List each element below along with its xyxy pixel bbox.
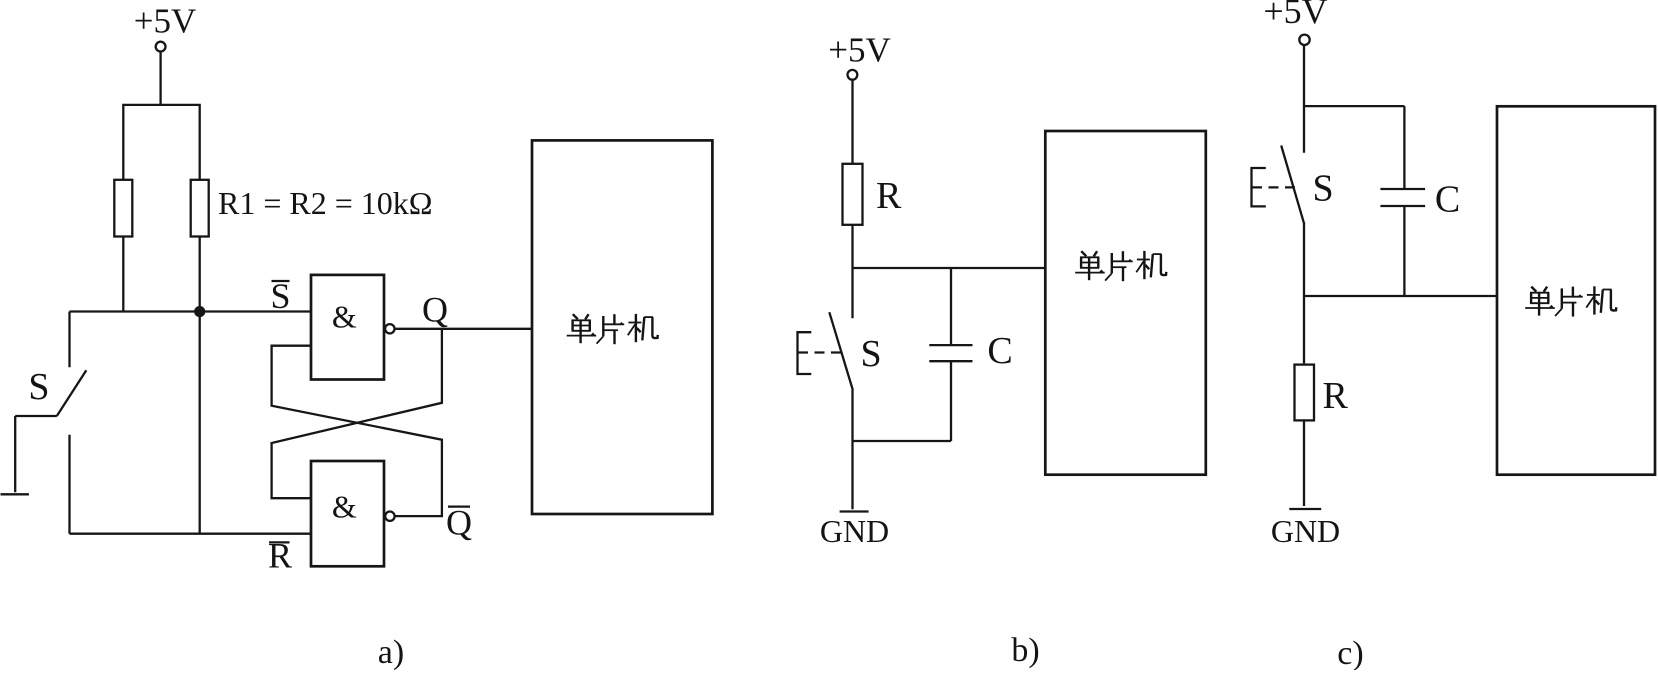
svg-text:R: R bbox=[876, 175, 902, 217]
svg-text:GND: GND bbox=[1271, 513, 1340, 549]
svg-text:Q: Q bbox=[422, 290, 448, 330]
svg-text:C: C bbox=[987, 330, 1012, 372]
svg-text:+5V: +5V bbox=[828, 31, 891, 70]
svg-text:R1 = R2 = 10kΩ: R1 = R2 = 10kΩ bbox=[218, 185, 433, 221]
svg-text:C: C bbox=[1435, 179, 1460, 221]
svg-text:R: R bbox=[1323, 375, 1349, 417]
svg-text:S: S bbox=[28, 366, 49, 408]
svg-text:S: S bbox=[861, 333, 882, 375]
svg-text:b): b) bbox=[1011, 632, 1039, 669]
svg-text:a): a) bbox=[378, 634, 404, 670]
svg-text:c): c) bbox=[1337, 635, 1363, 670]
svg-text:S: S bbox=[1313, 168, 1334, 210]
svg-text:+5V: +5V bbox=[134, 1, 197, 40]
svg-text:+5V: +5V bbox=[1263, 0, 1327, 31]
svg-text:Q: Q bbox=[446, 503, 472, 543]
svg-text:GND: GND bbox=[820, 513, 889, 549]
svg-text:&: & bbox=[332, 489, 357, 525]
svg-text:&: & bbox=[332, 298, 357, 334]
